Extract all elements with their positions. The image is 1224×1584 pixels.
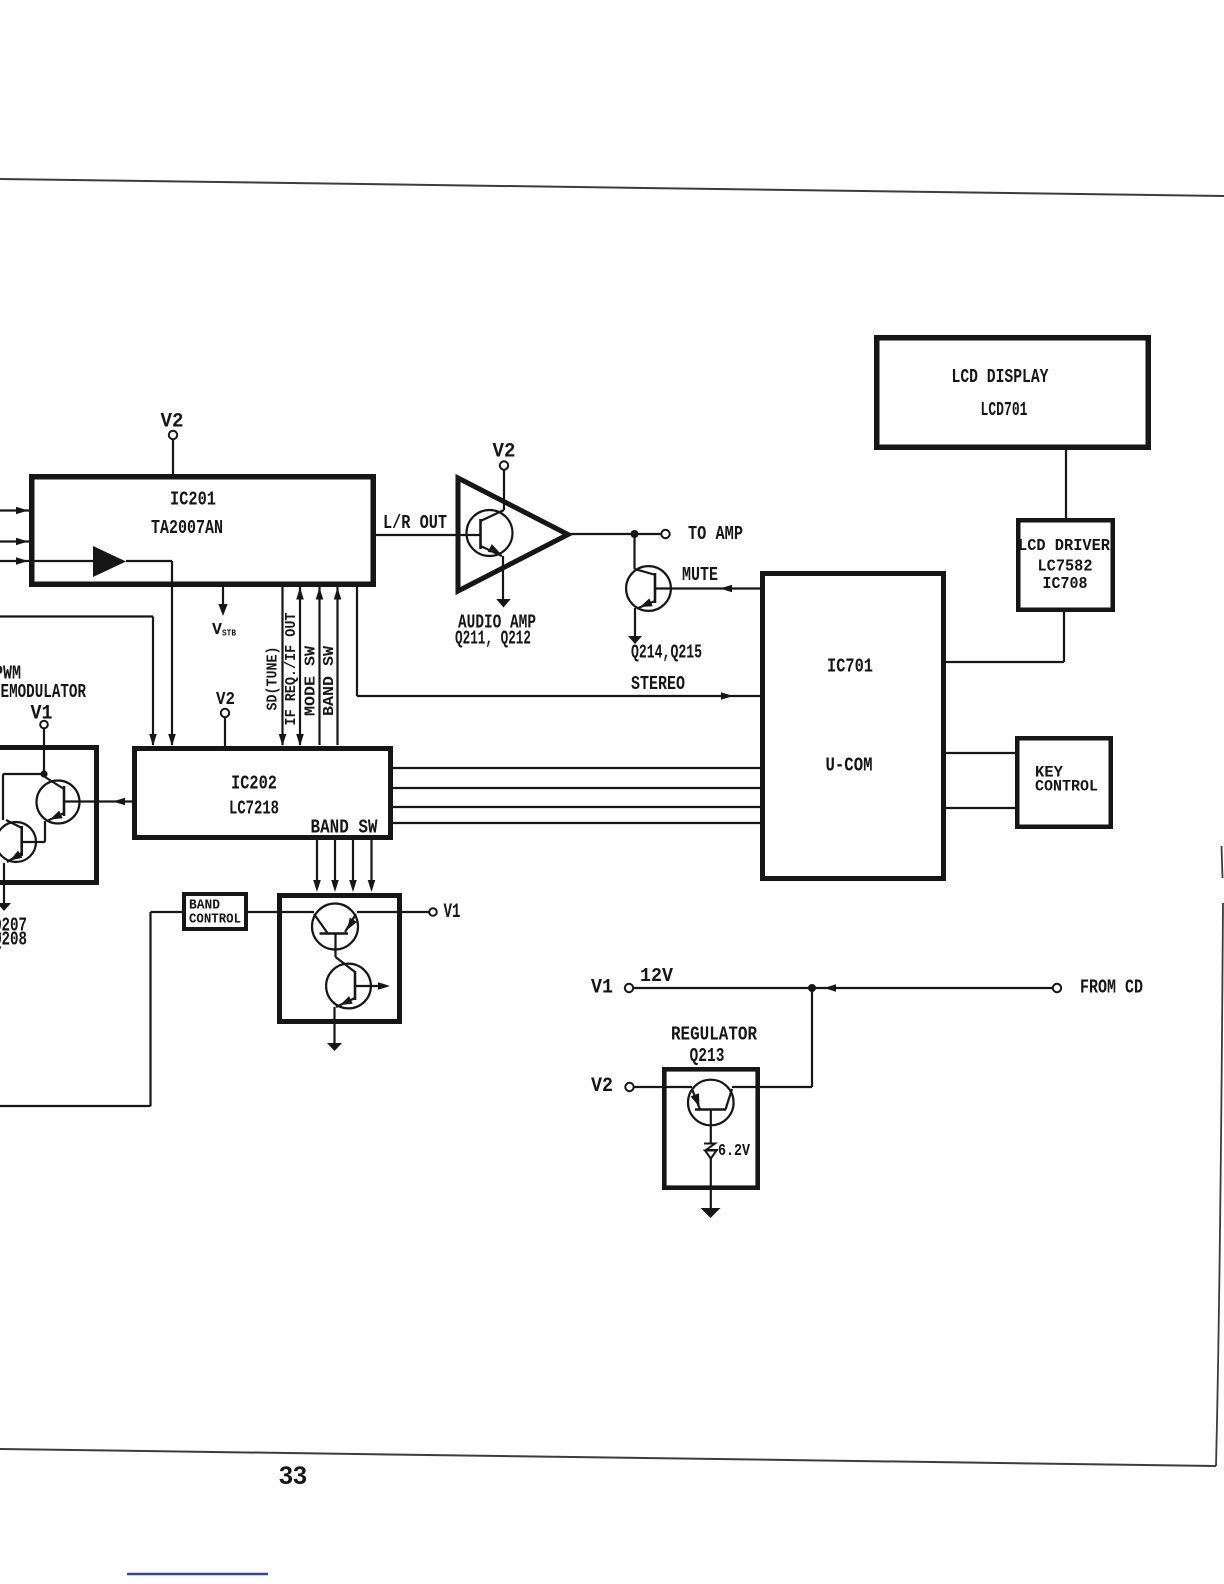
svg-text:LCD DISPLAY: LCD DISPLAY	[952, 366, 1049, 388]
svg-text:V2: V2	[493, 441, 516, 464]
svg-text:IC708: IC708	[1043, 575, 1088, 594]
svg-text:CONTROL: CONTROL	[1035, 778, 1098, 796]
svg-text:BAND SW: BAND SW	[311, 817, 378, 839]
svg-text:V1: V1	[444, 901, 461, 924]
svg-text:Q213: Q213	[690, 1045, 725, 1067]
svg-text:12V: 12V	[640, 965, 674, 987]
svg-text:IC701: IC701	[827, 656, 873, 678]
svg-text:33: 33	[279, 1462, 307, 1490]
svg-text:LC7582: LC7582	[1038, 558, 1093, 577]
svg-text:Q211, Q212: Q211, Q212	[455, 628, 531, 650]
svg-text:LC7218: LC7218	[229, 798, 279, 820]
svg-text:6.2V: 6.2V	[718, 1142, 751, 1161]
svg-text:Q214,Q215: Q214,Q215	[631, 642, 702, 664]
svg-text:DEMODULATOR: DEMODULATOR	[0, 681, 86, 703]
svg-text:LCD DRIVER: LCD DRIVER	[1018, 537, 1111, 556]
svg-text:LCD701: LCD701	[981, 399, 1028, 421]
svg-text:V2: V2	[216, 690, 235, 710]
svg-text:TA2007AN: TA2007AN	[151, 517, 223, 539]
svg-text:STEREO: STEREO	[631, 673, 685, 695]
svg-text:FROM CD: FROM CD	[1080, 977, 1143, 999]
svg-text:V2: V2	[161, 411, 184, 434]
svg-text:IF REQ./IF OUT: IF REQ./IF OUT	[283, 613, 300, 726]
svg-text:TO AMP: TO AMP	[688, 523, 743, 545]
svg-text:V2: V2	[591, 1075, 613, 1098]
svg-text:V1: V1	[591, 977, 613, 1000]
svg-text:IC202: IC202	[231, 773, 277, 795]
svg-text:BAND SW: BAND SW	[321, 646, 338, 716]
svg-text:IC201: IC201	[170, 489, 216, 511]
svg-text:REGULATOR: REGULATOR	[671, 1024, 757, 1046]
svg-text:MUTE: MUTE	[682, 564, 718, 586]
svg-text:Q208: Q208	[0, 929, 27, 951]
svg-text:STB: STB	[222, 628, 236, 639]
svg-text:U-COM: U-COM	[826, 755, 873, 777]
svg-text:SD(TUNE): SD(TUNE)	[265, 647, 282, 711]
svg-text:CONTROL: CONTROL	[189, 912, 241, 928]
svg-text:L/R OUT: L/R OUT	[383, 512, 447, 534]
svg-text:MODE SW: MODE SW	[303, 646, 320, 716]
